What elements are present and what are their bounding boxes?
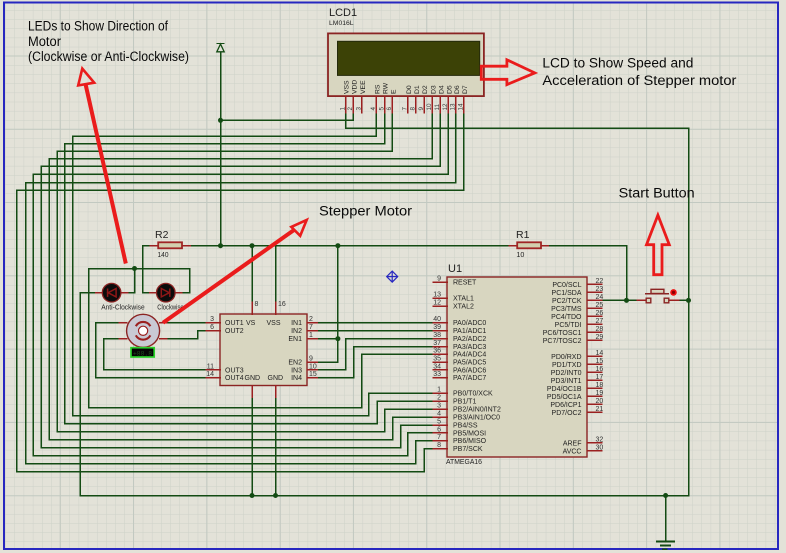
U1 pin 7 PB6/MISO [433, 440, 447, 442]
LCD pin 3 stub [361, 96, 363, 113]
power terminal arrow [217, 44, 224, 52]
motor speed display [131, 348, 154, 357]
wire R2 left to LED2 anode [143, 245, 150, 247]
svg-text:35: 35 [433, 356, 441, 363]
svg-text:PC4/TDO: PC4/TDO [551, 314, 582, 321]
svg-text:PD7/OC2: PD7/OC2 [552, 410, 582, 417]
wire LED1 anode to bottom ground rail [80, 292, 96, 294]
svg-text:PB1/T1: PB1/T1 [453, 399, 476, 406]
svg-text:PC7/TOSC2: PC7/TOSC2 [543, 338, 582, 345]
svg-text:1: 1 [437, 387, 441, 394]
svg-text:14: 14 [596, 350, 604, 357]
wire driver GND drops [251, 397, 253, 496]
svg-text:11: 11 [434, 103, 441, 110]
svg-text:8: 8 [255, 301, 259, 308]
U1 pin 21 PD7/OC2 [587, 411, 602, 413]
svg-text:7: 7 [437, 434, 441, 441]
wire R2-R1 supply rail [190, 245, 509, 247]
U1 pin 13 XTAL1 [433, 297, 447, 299]
svg-text:7: 7 [309, 324, 313, 331]
svg-text:VDD: VDD [352, 80, 359, 94]
LCD pin 6 stub [391, 96, 393, 113]
svg-text:EN2: EN2 [288, 360, 302, 367]
svg-text:XTAL2: XTAL2 [453, 304, 474, 311]
U1 pin 23 PC1/SDA [587, 291, 602, 293]
svg-text:PD3/INT1: PD3/INT1 [551, 378, 582, 385]
svg-text:PD1/TXD: PD1/TXD [552, 362, 582, 369]
LCD pin 14 stub [463, 96, 465, 113]
svg-text:39: 39 [433, 324, 441, 331]
svg-text:(Clockwise or Anti-Clockwise): (Clockwise or Anti-Clockwise) [28, 49, 189, 65]
svg-text:RW: RW [383, 82, 390, 94]
svg-text:PB4/SS: PB4/SS [453, 423, 478, 430]
svg-text:PA4/ADC4: PA4/ADC4 [453, 352, 486, 359]
svg-text:2: 2 [347, 107, 354, 111]
U1 pin 16 PD2/INT0 [587, 371, 602, 373]
svg-text:24: 24 [596, 294, 604, 301]
U1 pin 36 PA4/ADC4 [433, 353, 447, 355]
svg-text:10: 10 [516, 252, 524, 259]
node ground junction [663, 493, 668, 498]
svg-text:2: 2 [437, 395, 441, 402]
LCD pin 12 stub [447, 96, 449, 113]
wire LCD pin11 net to PB4 [439, 113, 441, 166]
svg-text:26: 26 [596, 310, 604, 317]
U1 pin 2 PB1/T1 [433, 400, 447, 402]
wire VS riser [251, 246, 253, 302]
svg-text:PB5/MOSI: PB5/MOSI [453, 430, 486, 437]
svg-text:GND: GND [268, 375, 284, 382]
svg-text:+88.8: +88.8 [133, 350, 152, 357]
svg-text:10: 10 [309, 363, 317, 370]
wire LED2 cathode link [189, 269, 191, 293]
svg-text:4: 4 [370, 107, 377, 111]
annotation arrow LCD (block right) [481, 60, 535, 85]
svg-text:VSS: VSS [267, 320, 281, 327]
svg-text:AVCC: AVCC [563, 448, 582, 455]
push button [637, 299, 646, 301]
svg-text:2: 2 [309, 316, 313, 323]
svg-text:15: 15 [596, 358, 604, 365]
svg-text:D7: D7 [462, 85, 469, 94]
svg-text:9: 9 [309, 356, 313, 363]
wire IN2 to PA1 [317, 330, 433, 332]
node EN1 junction [335, 336, 340, 341]
svg-text:OUT1: OUT1 [225, 320, 244, 327]
wire LCD pin4 net to PB0 [375, 113, 377, 136]
wire EN1/EN2 to supply [337, 246, 339, 362]
svg-text:Stepper Motor: Stepper Motor [319, 204, 412, 220]
svg-text:14: 14 [206, 371, 214, 378]
wire bottom ground rail [80, 495, 688, 497]
svg-text:9: 9 [437, 276, 441, 283]
U1 pin 40 PA0/ADC0 [433, 322, 447, 324]
svg-text:3: 3 [437, 403, 441, 410]
svg-text:Anti-Clockwise: Anti-Clockwise [101, 304, 145, 311]
svg-text:IN4: IN4 [291, 375, 302, 382]
U1 pin 19 PD5/OC1A [587, 395, 602, 397]
svg-text:8: 8 [410, 107, 417, 111]
node supply/EN junction [335, 243, 340, 248]
driver chip U2 L293D [220, 314, 307, 386]
U1 pin 35 PA5/ADC5 [433, 361, 447, 363]
svg-text:7: 7 [402, 107, 409, 111]
U1 pin 28 PC6/TOSC1 [587, 331, 602, 333]
wire IN3 to PA2 [317, 369, 346, 371]
svg-text:11: 11 [207, 363, 214, 370]
U1 pin 33 PA7/ADC7 [433, 377, 447, 379]
svg-text:EN1: EN1 [288, 336, 302, 343]
svg-text:E: E [391, 89, 398, 94]
U1 pin 37 PA3/ADC3 [433, 346, 447, 348]
wire LCD pin2 VDD to power rail [352, 113, 354, 120]
svg-text:6: 6 [210, 324, 214, 331]
svg-text:Acceleration of Stepper motor: Acceleration of Stepper motor [542, 73, 736, 89]
svg-text:4: 4 [437, 411, 441, 418]
svg-text:Motor: Motor [28, 34, 61, 50]
LCD pin 4 stub [375, 96, 377, 113]
svg-text:RS: RS [375, 84, 382, 94]
wire LCD pin12 net to PB5 [447, 113, 449, 174]
node LED net junction [132, 266, 137, 271]
svg-text:22: 22 [596, 278, 604, 285]
LCD pin 10 stub [431, 96, 433, 113]
LCD pin 1 stub [345, 96, 347, 113]
svg-text:5: 5 [378, 107, 385, 111]
U1 pin 8 PB7/SCK [433, 448, 447, 450]
svg-text:28: 28 [596, 326, 604, 333]
svg-text:ATMEGA16: ATMEGA16 [446, 457, 482, 466]
U1 pin 22 PC0/SCL [587, 283, 602, 285]
U1 pin 25 PC3/TMS [587, 307, 602, 309]
LCD pin 9 stub [423, 96, 425, 113]
svg-text:16: 16 [278, 301, 286, 308]
U1 pin 26 PC4/TDO [587, 315, 602, 317]
LCD pin 8 stub [415, 96, 417, 113]
wire LED common net to PA4 [88, 269, 90, 408]
svg-text:OUT3: OUT3 [225, 367, 244, 374]
svg-text:PA1/ADC1: PA1/ADC1 [453, 328, 486, 335]
svg-text:38: 38 [433, 332, 441, 339]
U1 pin 14 PD0/RXD [587, 355, 602, 357]
wire motor D to OUT3 [104, 338, 119, 340]
LCD pin 2 stub [352, 96, 354, 113]
svg-text:15: 15 [309, 371, 317, 378]
svg-text:D0: D0 [406, 85, 413, 94]
svg-text:PA0/ADC0: PA0/ADC0 [453, 320, 486, 327]
wire LCD pin5 net to PB1 [384, 113, 386, 144]
svg-text:D1: D1 [414, 85, 421, 94]
svg-text:D6: D6 [454, 85, 461, 94]
svg-text:PA3/ADC3: PA3/ADC3 [453, 344, 486, 351]
svg-text:PD4/OC1B: PD4/OC1B [547, 386, 582, 393]
svg-text:PD5/OC1A: PD5/OC1A [547, 394, 582, 401]
node GND rail junctions [250, 493, 255, 498]
svg-text:PB3/AIN1/OC0: PB3/AIN1/OC0 [453, 415, 500, 422]
svg-text:6: 6 [386, 107, 393, 111]
svg-text:5: 5 [437, 419, 441, 426]
svg-text:PD2/INT0: PD2/INT0 [551, 370, 582, 377]
svg-text:RESET: RESET [453, 280, 477, 287]
node button/ground-rail junction [686, 298, 691, 303]
svg-text:30: 30 [596, 444, 604, 451]
U1 pin 15 PD1/TXD [587, 363, 602, 365]
node supply/VS junction [250, 243, 255, 248]
wire LCD pin13 net to PB6 [455, 113, 457, 183]
svg-text:R2: R2 [155, 229, 169, 241]
svg-text:34: 34 [433, 363, 441, 370]
U1 pin 4 PB3/AIN1/OC0 [433, 416, 447, 418]
svg-text:LCD to Show Speed and: LCD to Show Speed and [542, 55, 693, 71]
U1 pin 9 RESET [433, 281, 447, 283]
svg-text:Start Button: Start Button [619, 185, 695, 201]
node supply/power junction [218, 243, 223, 248]
svg-text:PB2/AIN0/INT2: PB2/AIN0/INT2 [453, 407, 501, 414]
svg-text:U1: U1 [448, 263, 462, 275]
annotation arrow start button (block up) [647, 215, 670, 275]
svg-text:18: 18 [596, 382, 604, 389]
svg-text:PB0/T0/XCK: PB0/T0/XCK [453, 391, 493, 398]
svg-text:VSS: VSS [344, 80, 351, 94]
ground [665, 496, 667, 542]
svg-text:VS: VS [246, 320, 256, 327]
wire LED common horizontal [89, 268, 190, 270]
svg-text:IN2: IN2 [291, 328, 302, 335]
svg-text:OUT4: OUT4 [225, 375, 244, 382]
wire LCD pin10 net to PB3 [431, 113, 433, 159]
svg-text:PA7/ADC7: PA7/ADC7 [453, 375, 486, 382]
svg-text:6: 6 [437, 426, 441, 433]
LCD pin 5 stub [384, 96, 386, 113]
wire LCD pin14 net to PB7 [463, 113, 465, 190]
resistor R1 [509, 245, 517, 247]
svg-text:LCD1: LCD1 [329, 7, 357, 19]
svg-text:13: 13 [433, 292, 441, 299]
svg-text:40: 40 [433, 316, 441, 323]
wire right ground vertical x=688 [688, 128, 690, 495]
svg-text:PA2/ADC2: PA2/ADC2 [453, 336, 486, 343]
svg-text:20: 20 [596, 398, 604, 405]
svg-text:10: 10 [426, 103, 433, 111]
wire LCD pin6 net to PB2 [391, 113, 393, 151]
svg-text:PD0/RXD: PD0/RXD [551, 354, 581, 361]
U1 pin 30 AVCC [587, 450, 602, 452]
svg-text:LEDs to Show Direction of: LEDs to Show Direction of [28, 19, 168, 35]
wire motor B to OUT2 [167, 338, 198, 340]
svg-text:OUT2: OUT2 [225, 328, 244, 335]
svg-text:27: 27 [596, 318, 604, 325]
annotation arrow to stepper motor [163, 230, 294, 323]
svg-text:PC5/TDI: PC5/TDI [555, 322, 582, 329]
svg-text:3: 3 [210, 316, 214, 323]
wire IN4 to PA3 [317, 377, 354, 379]
resistor R2 [150, 245, 158, 247]
U1 pin 3 PB2/AIN0/INT2 [433, 408, 447, 410]
svg-text:14: 14 [458, 103, 465, 111]
U1 pin 24 PC2/TCK [587, 299, 602, 301]
LCD pin 13 stub [455, 96, 457, 113]
svg-text:17: 17 [596, 374, 604, 381]
stepper motor symbol [119, 322, 126, 324]
svg-text:PA5/ADC5: PA5/ADC5 [453, 360, 486, 367]
svg-text:PD6/ICP1: PD6/ICP1 [550, 402, 581, 409]
U1 pin 34 PA6/ADC6 [433, 369, 447, 371]
svg-text:33: 33 [433, 371, 441, 378]
node button/PC2 junction [624, 298, 629, 303]
U1 pin 38 PA2/ADC2 [433, 338, 447, 340]
svg-text:R1: R1 [516, 229, 530, 241]
svg-text:LM016L: LM016L [329, 20, 354, 27]
svg-text:D5: D5 [447, 85, 454, 94]
svg-text:D2: D2 [422, 85, 429, 94]
annotation arrow to LEDs [86, 84, 126, 264]
svg-text:D3: D3 [430, 85, 437, 94]
LED D2 Clockwise [150, 292, 157, 294]
LCD pin 7 stub [407, 96, 409, 113]
U1 pin 1 PB0/T0/XCK [433, 392, 447, 394]
svg-text:1: 1 [309, 332, 313, 339]
svg-text:VEE: VEE [360, 80, 367, 94]
LCD pin 11 stub [439, 96, 441, 113]
wire button row [603, 299, 637, 301]
U1 pin 32 AREF [587, 442, 602, 444]
U1 pin 29 PC7/TOSC2 [587, 339, 602, 341]
blue origin marker [387, 271, 398, 282]
svg-text:8: 8 [437, 442, 441, 449]
svg-text:29: 29 [596, 334, 604, 341]
U1 pin 27 PC5/TDI [587, 323, 602, 325]
wire R1 right to button [548, 245, 627, 247]
wire power vertical x=220 [220, 53, 222, 246]
svg-text:PC2/TCK: PC2/TCK [552, 298, 582, 305]
svg-text:140: 140 [158, 252, 169, 259]
svg-text:19: 19 [596, 390, 604, 397]
wire VSS riser [275, 246, 277, 302]
svg-text:12: 12 [442, 103, 449, 111]
svg-text:13: 13 [450, 103, 457, 111]
U1 pin 6 PB5/MOSI [433, 432, 447, 434]
svg-text:36: 36 [433, 348, 441, 355]
wire LCD pin1 VSS to ground rail [345, 113, 347, 128]
svg-text:16: 16 [596, 366, 604, 373]
svg-text:37: 37 [433, 340, 441, 347]
svg-text:GND: GND [245, 375, 261, 382]
LED D1 Anti-Clockwise [96, 292, 103, 294]
svg-text:25: 25 [596, 302, 604, 309]
svg-text:IN1: IN1 [291, 320, 302, 327]
U1 pin 12 XTAL2 [433, 305, 447, 307]
svg-text:PB7/SCK: PB7/SCK [453, 446, 483, 453]
svg-text:XTAL1: XTAL1 [453, 296, 474, 303]
svg-text:PC3/TMS: PC3/TMS [551, 306, 582, 313]
svg-text:PC0/SCL: PC0/SCL [552, 282, 581, 289]
wire IN1 to PA0 [317, 322, 433, 324]
svg-text:PC1/SDA: PC1/SDA [552, 290, 582, 297]
svg-text:1: 1 [339, 107, 346, 111]
svg-text:21: 21 [596, 406, 604, 413]
node power/VDD junction [218, 118, 223, 123]
U1 pin 18 PD4/OC1B [587, 387, 602, 389]
svg-text:AREF: AREF [563, 440, 582, 447]
wire motor C to OUT4 [96, 322, 120, 324]
svg-text:PA6/ADC6: PA6/ADC6 [453, 367, 486, 374]
svg-text:PB6/MISO: PB6/MISO [453, 438, 487, 445]
U1 pin 5 PB4/SS [433, 424, 447, 426]
U1 pin 39 PA1/ADC1 [433, 330, 447, 332]
svg-text:PC6/TOSC1: PC6/TOSC1 [543, 330, 582, 337]
svg-text:23: 23 [596, 286, 604, 293]
wire motor A to OUT1 [167, 322, 206, 324]
U1 pin 17 PD3/INT1 [587, 379, 602, 381]
wire LED1 cathode link [134, 269, 136, 293]
svg-text:3: 3 [355, 107, 362, 111]
svg-text:D4: D4 [438, 85, 445, 94]
svg-text:9: 9 [418, 107, 425, 111]
svg-text:12: 12 [433, 300, 441, 307]
U1 pin 20 PD6/ICP1 [587, 403, 602, 405]
svg-text:32: 32 [596, 436, 604, 443]
svg-text:IN3: IN3 [291, 367, 302, 374]
